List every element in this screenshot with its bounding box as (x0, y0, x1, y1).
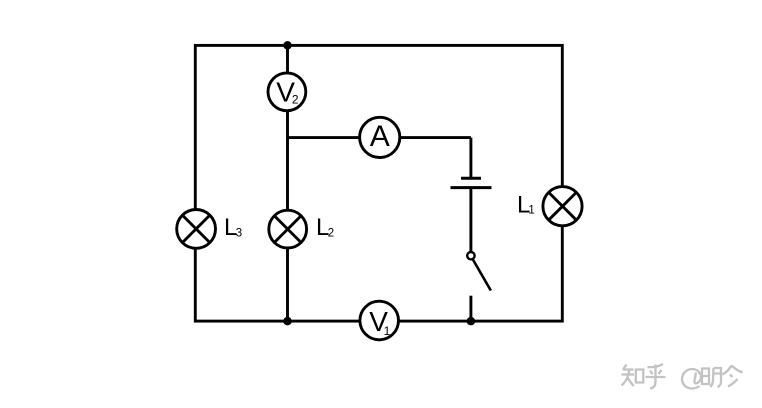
svg-text:1: 1 (528, 205, 534, 217)
svg-text:1: 1 (384, 324, 391, 338)
svg-text:3: 3 (236, 228, 242, 240)
svg-text:A: A (370, 120, 390, 153)
svg-text:2: 2 (292, 93, 299, 107)
svg-text:2: 2 (328, 228, 334, 240)
